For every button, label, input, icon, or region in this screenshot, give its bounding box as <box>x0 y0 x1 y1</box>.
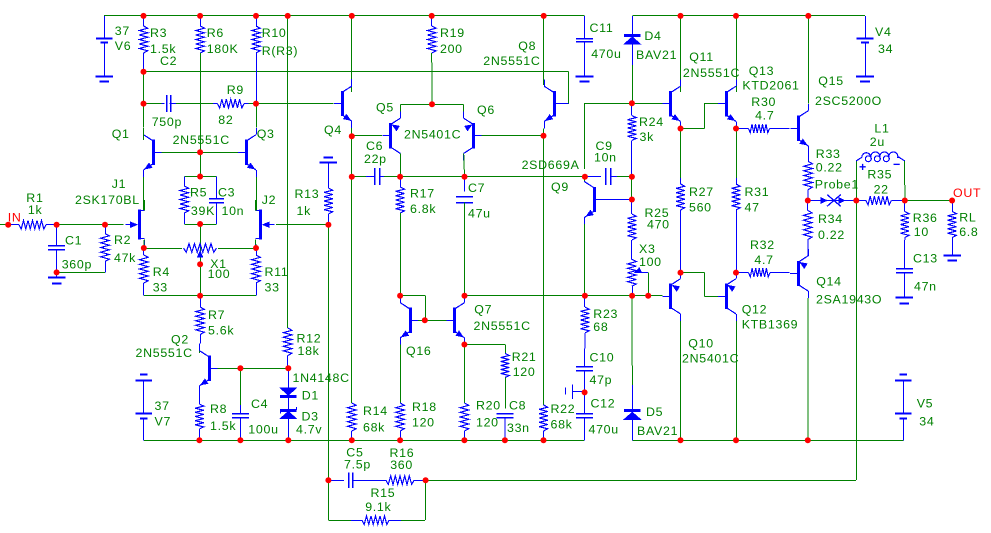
svg-text:Q1: Q1 <box>112 127 130 141</box>
svg-text:J2: J2 <box>262 193 277 207</box>
svg-text:V4: V4 <box>875 25 892 39</box>
svg-text:360: 360 <box>390 458 413 472</box>
svg-text:Q13: Q13 <box>749 64 775 78</box>
svg-text:360p: 360p <box>62 258 92 272</box>
svg-text:R15: R15 <box>371 486 396 500</box>
svg-text:Q4: Q4 <box>324 123 342 137</box>
svg-text:1k: 1k <box>297 204 312 218</box>
svg-text:68: 68 <box>593 320 608 334</box>
svg-text:10: 10 <box>914 225 929 239</box>
svg-text:R31: R31 <box>745 185 770 199</box>
svg-text:68k: 68k <box>551 418 573 432</box>
svg-text:Q3: Q3 <box>257 127 275 141</box>
svg-text:R21: R21 <box>512 350 537 364</box>
svg-text:22: 22 <box>874 183 889 197</box>
svg-text:47p: 47p <box>590 373 613 387</box>
svg-text:34: 34 <box>878 42 893 56</box>
svg-text:R20: R20 <box>476 399 501 413</box>
svg-text:Q7: Q7 <box>474 303 492 317</box>
svg-text:1.5k: 1.5k <box>210 419 236 433</box>
svg-text:6.8k: 6.8k <box>410 202 436 216</box>
svg-text:4.7v: 4.7v <box>296 423 322 437</box>
svg-text:Q2: Q2 <box>171 333 189 347</box>
svg-text:47: 47 <box>745 201 760 215</box>
svg-text:C7: C7 <box>468 181 485 195</box>
svg-text:33n: 33n <box>507 421 530 435</box>
svg-text:0.22: 0.22 <box>818 228 845 242</box>
svg-text:C8: C8 <box>509 399 526 413</box>
svg-text:R10: R10 <box>262 26 287 40</box>
svg-text:−: − <box>893 158 901 172</box>
svg-text:4.7: 4.7 <box>754 253 773 267</box>
svg-text:2N5551C: 2N5551C <box>136 346 193 360</box>
svg-text:750p: 750p <box>152 115 182 129</box>
svg-text:BAV21: BAV21 <box>636 48 677 62</box>
svg-text:R9: R9 <box>227 83 244 97</box>
svg-text:120: 120 <box>513 365 536 379</box>
svg-text:7.5p: 7.5p <box>344 458 371 472</box>
svg-text:82: 82 <box>218 113 233 127</box>
svg-text:2SA1943O: 2SA1943O <box>816 293 882 307</box>
svg-text:R3: R3 <box>150 26 167 40</box>
svg-text:Q10: Q10 <box>688 337 714 351</box>
svg-text:39K: 39K <box>191 204 215 218</box>
svg-text:1N4148C: 1N4148C <box>293 371 350 385</box>
svg-text:R11: R11 <box>265 265 289 279</box>
svg-text:KTD2061: KTD2061 <box>742 79 799 93</box>
svg-text:R32: R32 <box>750 238 775 252</box>
svg-text:R18: R18 <box>412 400 437 414</box>
svg-text:33: 33 <box>153 281 168 295</box>
svg-text:470u: 470u <box>589 423 619 437</box>
svg-text:100: 100 <box>639 255 662 269</box>
svg-text:R27: R27 <box>689 185 714 199</box>
svg-text:470: 470 <box>647 218 670 232</box>
svg-text:2N5551C: 2N5551C <box>483 54 540 68</box>
svg-text:C11: C11 <box>590 21 614 35</box>
svg-text:Probe1: Probe1 <box>815 178 859 192</box>
svg-text:120: 120 <box>476 416 499 430</box>
svg-text:Q16: Q16 <box>406 344 432 358</box>
svg-text:5.6k: 5.6k <box>208 324 234 338</box>
svg-text:R8: R8 <box>210 402 227 416</box>
svg-text:R17: R17 <box>410 187 435 201</box>
svg-text:RL: RL <box>959 211 976 225</box>
svg-text:Q5: Q5 <box>376 101 394 115</box>
svg-text:2N5551C: 2N5551C <box>683 66 740 80</box>
svg-text:R33: R33 <box>816 147 841 161</box>
svg-text:BAV21: BAV21 <box>637 424 678 438</box>
svg-text:D3: D3 <box>302 410 319 424</box>
svg-text:2N5401C: 2N5401C <box>404 128 461 142</box>
svg-text:3k: 3k <box>640 130 655 144</box>
svg-text:2u: 2u <box>870 135 885 149</box>
svg-text:1k: 1k <box>28 203 43 217</box>
svg-text:IN: IN <box>8 211 22 225</box>
svg-text:KTB1369: KTB1369 <box>742 318 799 332</box>
svg-text:C3: C3 <box>218 186 235 200</box>
svg-text:2SD669A: 2SD669A <box>522 158 580 172</box>
svg-text:10n: 10n <box>222 204 245 218</box>
svg-text:L1: L1 <box>874 122 889 136</box>
svg-text:D5: D5 <box>646 405 663 419</box>
svg-text:R6: R6 <box>207 26 224 40</box>
svg-text:100u: 100u <box>248 423 278 437</box>
svg-text:R24: R24 <box>639 115 664 129</box>
svg-text:+: + <box>859 160 867 174</box>
svg-text:4.7: 4.7 <box>755 108 774 122</box>
svg-text:Q15: Q15 <box>818 74 844 88</box>
svg-text:OUT: OUT <box>953 186 981 200</box>
svg-text:10n: 10n <box>594 151 617 165</box>
svg-text:R4: R4 <box>153 265 170 279</box>
svg-text:2N5401C: 2N5401C <box>682 352 739 366</box>
svg-text:R34: R34 <box>818 212 843 226</box>
svg-text:R19: R19 <box>440 26 465 40</box>
svg-text:R(R3): R(R3) <box>262 44 299 58</box>
svg-text:47n: 47n <box>914 280 937 294</box>
svg-text:Q6: Q6 <box>477 103 495 117</box>
svg-text:120: 120 <box>412 416 435 430</box>
svg-text:37: 37 <box>155 399 170 413</box>
svg-text:Q12: Q12 <box>742 303 768 317</box>
svg-text:180K: 180K <box>207 42 239 56</box>
svg-text:V5: V5 <box>917 397 934 411</box>
svg-text:Q8: Q8 <box>518 39 536 53</box>
svg-text:R30: R30 <box>751 95 776 109</box>
svg-text:R23: R23 <box>593 307 618 321</box>
svg-text:C1: C1 <box>65 234 82 248</box>
svg-text:22p: 22p <box>364 152 387 166</box>
svg-text:2N5551C: 2N5551C <box>173 133 230 147</box>
svg-text:0.22: 0.22 <box>816 161 843 175</box>
svg-text:Q14: Q14 <box>816 275 842 289</box>
svg-text:R5: R5 <box>190 186 207 200</box>
svg-text:200: 200 <box>440 42 463 56</box>
svg-text:2SC5200O: 2SC5200O <box>815 94 882 108</box>
svg-text:C10: C10 <box>590 350 615 364</box>
svg-text:47u: 47u <box>468 207 491 221</box>
svg-text:100: 100 <box>208 267 231 281</box>
svg-text:68k: 68k <box>363 421 385 435</box>
svg-text:R2: R2 <box>114 233 131 247</box>
svg-text:33: 33 <box>265 281 280 295</box>
svg-text:D4: D4 <box>644 29 661 43</box>
svg-text:V7: V7 <box>155 415 172 429</box>
svg-text:C4: C4 <box>251 397 268 411</box>
svg-text:R7: R7 <box>208 308 225 322</box>
svg-text:C12: C12 <box>591 397 616 411</box>
svg-text:C13: C13 <box>913 252 938 266</box>
svg-text:V6: V6 <box>115 39 132 53</box>
svg-text:D1: D1 <box>302 389 319 403</box>
svg-text:R36: R36 <box>913 211 938 225</box>
svg-text:R22: R22 <box>551 402 576 416</box>
svg-text:560: 560 <box>689 201 712 215</box>
svg-text:37: 37 <box>115 24 130 38</box>
svg-text:Q11: Q11 <box>689 50 714 64</box>
svg-text:18k: 18k <box>298 344 320 358</box>
svg-text:6.8: 6.8 <box>959 225 978 239</box>
svg-text:Q9: Q9 <box>551 180 569 194</box>
svg-text:2SK170BL: 2SK170BL <box>75 193 140 207</box>
svg-text:C2: C2 <box>160 54 177 68</box>
svg-text:470u: 470u <box>591 47 621 61</box>
svg-text:2N5551C: 2N5551C <box>474 319 531 333</box>
svg-text:9.1k: 9.1k <box>365 500 391 514</box>
svg-text:R13: R13 <box>295 187 320 201</box>
svg-text:47k: 47k <box>114 251 136 265</box>
svg-text:J1: J1 <box>112 177 127 191</box>
svg-text:R14: R14 <box>363 404 388 418</box>
svg-text:34: 34 <box>919 415 934 429</box>
svg-text:R35: R35 <box>867 168 892 182</box>
